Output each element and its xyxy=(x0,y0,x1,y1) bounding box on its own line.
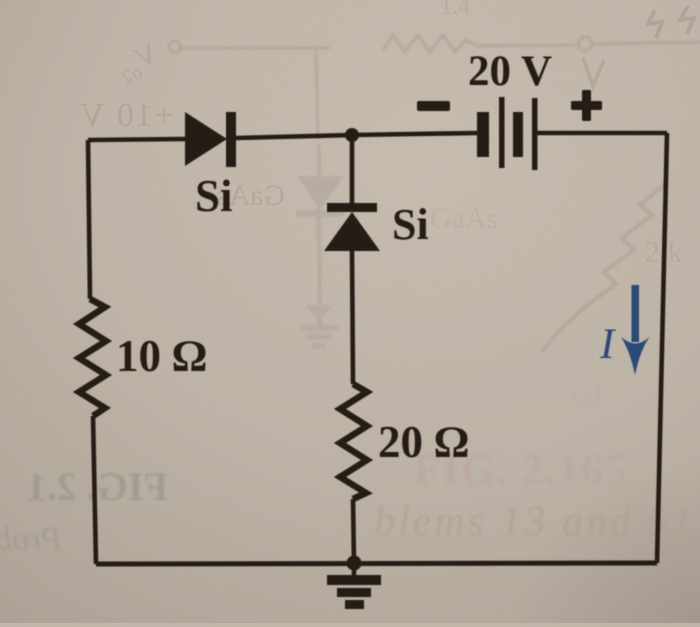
bottom edge light sliver xyxy=(0,623,700,627)
caption texts (washed out) xyxy=(0,445,696,558)
ghost squiggle top right xyxy=(648,6,694,38)
svg-text:(s): (s) xyxy=(572,378,602,409)
ghost vertical line mid xyxy=(319,145,320,330)
wire battery to top right corner xyxy=(537,131,667,136)
current arrow I xyxy=(599,285,650,375)
svg-text:10 Ω: 10 Ω xyxy=(116,331,207,381)
ghost ground mid xyxy=(300,305,338,349)
wire left vertical bottom xyxy=(93,416,96,564)
ghost V mark xyxy=(583,58,604,86)
ghost node circle top xyxy=(578,37,592,51)
wire D2 to R2 xyxy=(352,251,353,384)
ghost zigzag top xyxy=(383,35,575,52)
ghost texts xyxy=(78,0,694,409)
svg-text:Si: Si xyxy=(195,171,233,221)
svg-text:FIG. 2.1: FIG. 2.1 xyxy=(27,464,168,509)
svg-text:1.4: 1.4 xyxy=(440,0,470,20)
wire node A to battery xyxy=(352,133,478,135)
ground xyxy=(327,563,381,609)
svg-text:Problem: Problem xyxy=(0,521,63,558)
diode D1 Si (series, pointing right) xyxy=(185,112,236,167)
diode D2 Si (shunt, pointing up) xyxy=(324,203,380,251)
resistor R2 20ohm xyxy=(340,384,367,499)
label minus sign xyxy=(417,101,450,111)
svg-text:GaAs: GaAs xyxy=(430,202,498,235)
ghost zigzag right xyxy=(542,182,668,352)
battery E 20V xyxy=(477,97,538,170)
svg-text:Si: Si xyxy=(392,200,429,249)
wire bottom xyxy=(96,563,657,564)
ghost diode mid xyxy=(296,176,344,240)
svg-text:I: I xyxy=(599,321,616,368)
label plus sign xyxy=(571,90,602,121)
wire right vertical xyxy=(657,133,667,563)
svg-text:20 Ω: 20 Ω xyxy=(378,417,469,467)
svg-text:+10 V: +10 V xyxy=(78,97,174,134)
wire R2 to node B xyxy=(353,499,354,564)
svg-text:blems 13 and 51: blems 13 and 51 xyxy=(374,499,696,545)
node A junction dot xyxy=(345,128,359,142)
wire node A down to diode D2 xyxy=(350,135,355,204)
resistor R1 10ohm xyxy=(79,299,106,416)
ghost layer: bleed-through from reverse page xyxy=(169,35,700,352)
wire left vertical top xyxy=(88,140,90,299)
wire top left segment xyxy=(88,139,185,140)
main circuit xyxy=(79,48,667,609)
ghost wire left xyxy=(178,48,330,140)
wire diode to node A xyxy=(236,135,352,138)
svg-text:20 V: 20 V xyxy=(468,48,552,95)
node B junction dot xyxy=(347,556,362,571)
